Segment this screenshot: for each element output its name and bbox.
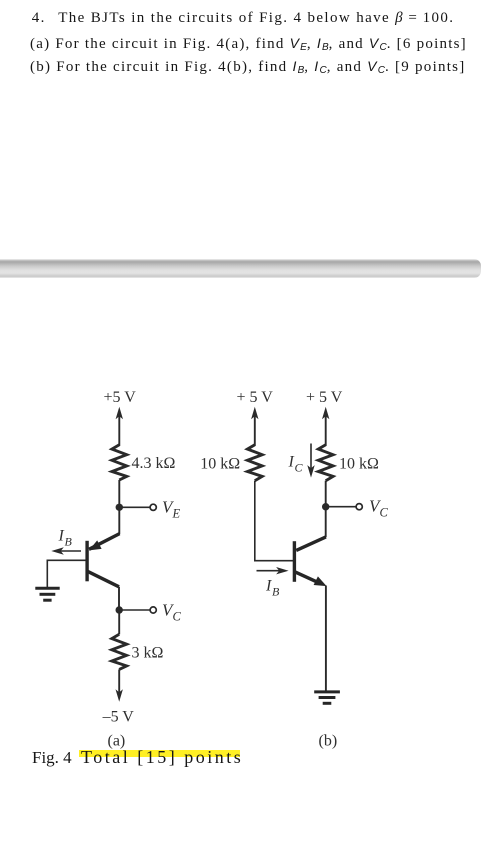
bottom cropped highlighted text: Total [15] points — [79, 750, 240, 757]
svg-text:B: B — [65, 535, 73, 549]
svg-text:C: C — [173, 610, 182, 624]
value label 3 kOhm — [132, 645, 164, 662]
transistor Q1 emitter arrow (pnp, into base) — [89, 540, 102, 550]
value label 4.3 kOhm — [132, 455, 176, 472]
svg-text:10 kΩ: 10 kΩ — [339, 456, 379, 473]
label IB (b) — [265, 578, 280, 599]
transistor Q1 (pnp) emitter lead — [89, 534, 120, 550]
svg-text:–5 V: –5 V — [102, 709, 135, 726]
svg-text:B: B — [272, 585, 280, 599]
svg-text:I: I — [265, 578, 272, 595]
VC open terminal (a) — [150, 607, 156, 613]
node VC junction dot (b) — [322, 503, 329, 510]
resistor R4 10k zigzag (b right) — [318, 445, 333, 481]
-5V supply label — [102, 709, 135, 726]
svg-text:+ 5 V: + 5 V — [237, 389, 274, 406]
ground symbol (a) — [35, 588, 59, 600]
transistor Q1 base bar — [85, 541, 88, 582]
label VE — [162, 498, 181, 521]
base wire to ground (a) — [47, 560, 85, 587]
VE open terminal — [150, 504, 156, 510]
+5V supply label (b left) — [237, 389, 274, 406]
value label 10 kOhm (b right) — [339, 456, 379, 473]
resistor R1 4.3k zigzag — [112, 445, 127, 480]
problem statement line 1 — [32, 11, 46, 26]
bottom cropped caption: Fig. 4 — [32, 749, 72, 766]
wire node to collector (b) — [325, 507, 327, 538]
resistor R2 3k zigzag — [112, 634, 127, 669]
+5V supply arrow (b right) — [322, 407, 329, 446]
emitter wire to ground (b) — [325, 586, 327, 691]
wire VE node to emitter — [118, 507, 120, 534]
wire resistor to node VE — [118, 480, 120, 507]
svg-text:10 kΩ: 10 kΩ — [200, 456, 240, 473]
ground symbol (b) — [314, 692, 340, 703]
+5V supply arrow (a) — [116, 407, 123, 446]
IC current label — [288, 454, 304, 475]
problem statement line 2 — [30, 36, 467, 55]
transistor Q2 emitter arrow (npn, outward) — [314, 576, 327, 586]
transistor Q2 emitter lead — [295, 572, 321, 584]
wire node to VC terminal (b) — [326, 506, 356, 508]
label VC (a) — [162, 601, 182, 624]
svg-text:C: C — [295, 461, 304, 475]
wire node to VC terminal (a) — [119, 609, 150, 611]
node VE junction dot — [116, 504, 123, 511]
node VC junction dot (a) — [116, 606, 123, 613]
label IB (a) — [58, 528, 73, 549]
transistor Q2 (npn) collector lead — [296, 537, 326, 551]
svg-text:+5 V: +5 V — [104, 389, 137, 406]
IB current arrow (a) — [51, 547, 81, 554]
caption (b) — [319, 733, 338, 750]
svg-text:3 kΩ: 3 kΩ — [132, 645, 164, 662]
VC open terminal (b) — [356, 504, 362, 510]
problem statement line 3 — [30, 59, 466, 78]
svg-text:I: I — [288, 454, 295, 471]
left branch wire down to base (b) — [255, 481, 293, 561]
wire node to VE terminal — [119, 506, 150, 508]
svg-text:E: E — [172, 507, 181, 521]
IB current arrow (b) — [257, 567, 289, 574]
wire node to resistor R2 — [118, 610, 120, 634]
caption (a) — [108, 733, 126, 750]
transistor Q2 base bar — [293, 541, 296, 582]
page divider bar — [0, 259, 481, 278]
svg-text:C: C — [380, 506, 389, 520]
transistor Q1 collector lead — [88, 571, 120, 587]
IC current arrow (down) — [307, 444, 314, 478]
+5V supply label (b right) — [306, 389, 343, 406]
+5V supply label (a) — [104, 389, 137, 406]
value label 10 kOhm (b left) — [200, 456, 240, 473]
wire collector to node VC — [118, 587, 120, 610]
wire resistor to node VC (b) — [325, 481, 327, 507]
resistor R3 10k zigzag (b left) — [247, 445, 262, 481]
+5V supply arrow (b left) — [251, 407, 258, 446]
wire to -5V arrow — [116, 669, 123, 701]
circuit figure — [0, 376, 481, 857]
label VC (b) — [369, 497, 389, 520]
svg-text:(b): (b) — [319, 733, 338, 750]
svg-text:+ 5 V: + 5 V — [306, 389, 343, 406]
svg-text:4.3 kΩ: 4.3 kΩ — [132, 455, 176, 472]
svg-text:I: I — [58, 528, 65, 545]
